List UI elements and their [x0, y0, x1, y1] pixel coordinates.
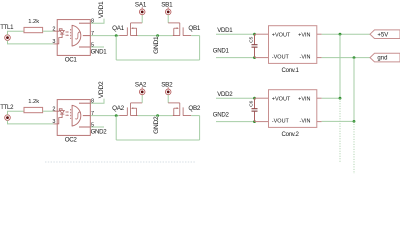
wire QA1 to QB1 — [138, 35, 173, 37]
supply flag +5V — [370, 30, 400, 39]
svg-text:2: 2 — [52, 107, 55, 113]
connector TTL1 — [5, 35, 11, 41]
junction Conv.2 -VIN node — [353, 120, 356, 123]
converter Conv.1 — [269, 26, 317, 64]
wire left drop ch1 — [115, 36, 117, 60]
optocoupler OC2 — [57, 100, 91, 136]
wire OC2.8 to VDD2 — [91, 99, 104, 104]
wire TTL1 to OC1 pin 3 — [8, 40, 54, 44]
junction GND1 node — [156, 34, 159, 37]
svg-text:-VIN: -VIN — [300, 54, 311, 60]
junction OC2.7 node — [115, 114, 118, 117]
svg-text:-VOUT: -VOUT — [272, 118, 290, 124]
svg-text:+VOUT: +VOUT — [272, 96, 291, 102]
svg-text:QB1: QB1 — [188, 25, 200, 32]
svg-text:-VIN: -VIN — [300, 118, 311, 124]
junction GND2 node — [156, 114, 159, 117]
pin stub Conv.2 -VOUT — [255, 121, 269, 123]
svg-text:2: 2 — [52, 27, 55, 33]
svg-text:+VIN: +VIN — [298, 32, 310, 38]
pin stub Conv.1 +VOUT — [255, 33, 269, 35]
svg-text:gnd: gnd — [377, 56, 387, 62]
svg-text:GND1: GND1 — [153, 36, 160, 54]
wire +5V drop to Conv.2 +VIN — [339, 34, 341, 98]
svg-text:1.2k: 1.2k — [28, 99, 39, 105]
wire R1 to OC1 pin 2 — [43, 30, 54, 32]
svg-text:SB2: SB2 — [161, 81, 173, 88]
svg-text:3: 3 — [52, 119, 55, 125]
wire GND1 to Conv.1 — [216, 57, 255, 59]
svg-text:GND2: GND2 — [153, 116, 160, 134]
wire Conv.2 -VIN — [322, 120, 354, 122]
wire QB2 gate right — [191, 115, 199, 117]
resistor R1 1.2k — [24, 27, 43, 32]
capacitor C6 — [252, 98, 258, 121]
svg-text:Conv.1: Conv.1 — [282, 67, 300, 74]
wire gnd dotted continuation — [353, 121, 355, 174]
pin stub Conv.1 -VOUT — [255, 57, 269, 59]
wire QA1 drain to SA1 — [141, 15, 143, 23]
wire GND2 to Conv.2 — [216, 121, 255, 123]
svg-text:SB1: SB1 — [161, 1, 173, 8]
wire bottom rail ch1 — [116, 59, 199, 61]
pin stub OC2.2 — [53, 110, 57, 112]
svg-text:VDD1: VDD1 — [98, 1, 105, 18]
wire QB1 gate right — [191, 35, 199, 37]
svg-text:Conv.2: Conv.2 — [282, 131, 300, 138]
svg-text:+VOUT: +VOUT — [272, 32, 291, 38]
transistor QB2 — [168, 103, 191, 116]
wire QA2 drain to SA2 — [141, 95, 143, 103]
svg-text:GND2: GND2 — [91, 128, 108, 135]
wire OC2.7 to QA2 — [91, 115, 119, 117]
wire OC1.5 GND1 — [91, 46, 104, 48]
transistor QB1 — [168, 23, 191, 36]
junction Conv.2 +VIN node — [339, 97, 342, 100]
wire OC1.7 to QA1 — [91, 35, 119, 37]
wire +5V dotted continuation — [339, 98, 341, 162]
wire bottom rail ch2 — [116, 139, 199, 141]
wire left drop ch2 — [115, 116, 117, 140]
svg-text:QA1: QA1 — [112, 25, 124, 32]
wire right drop ch2 — [199, 116, 201, 140]
svg-text:VDD1: VDD1 — [217, 27, 233, 34]
svg-text:TTL2: TTL2 — [0, 104, 14, 111]
resistor R2 1.2k — [24, 107, 43, 112]
wire Conv.2 +VIN — [322, 97, 340, 99]
junction OC1.7 node — [115, 34, 118, 37]
wire GND1 stub — [157, 36, 159, 42]
wire Conv.1 +VIN to +5V flag — [322, 33, 370, 35]
pin stub Conv.2 -VIN — [317, 121, 322, 123]
svg-text:+VIN: +VIN — [298, 96, 310, 102]
svg-text:TTL1: TTL1 — [0, 24, 14, 31]
junction gnd node — [353, 56, 356, 59]
wire right drop ch1 — [199, 36, 201, 60]
junction GND2 cap C6 — [253, 120, 256, 123]
svg-text:GND1: GND1 — [213, 48, 230, 55]
svg-text:SA1: SA1 — [135, 1, 147, 8]
pin stub Conv.1 -VIN — [317, 57, 322, 59]
pin stub Conv.1 +VIN — [317, 33, 322, 35]
wire TTL2 to R2 — [8, 111, 25, 115]
connector SB1 — [165, 7, 171, 14]
wire TTL1 to R1 — [8, 31, 25, 35]
svg-text:GND2: GND2 — [213, 112, 230, 119]
svg-text:3: 3 — [52, 39, 55, 45]
junction +5V node — [339, 33, 342, 36]
wire gnd drop to Conv.2 -VIN — [353, 58, 355, 122]
svg-text:OC1: OC1 — [65, 56, 78, 63]
svg-text:QA2: QA2 — [112, 105, 124, 112]
connector SA2 — [139, 87, 145, 95]
junction VDD2 cap C6 — [253, 97, 256, 100]
svg-text:OC2: OC2 — [65, 136, 78, 143]
supply flag gnd — [370, 53, 400, 62]
pin stub Conv.2 +VOUT — [255, 97, 269, 99]
svg-text:QB2: QB2 — [188, 105, 200, 112]
junction VDD1 cap C5 — [253, 33, 256, 36]
svg-text:VDD2: VDD2 — [217, 91, 233, 98]
pin stub Conv.2 +VIN — [317, 97, 322, 99]
wire R2 to OC2 pin 2 — [43, 110, 54, 112]
svg-text:1.2k: 1.2k — [28, 19, 39, 25]
junction GND1 cap C5 — [253, 56, 256, 59]
wire OC1.8 to VDD1 — [91, 19, 104, 24]
capacitor C5 — [252, 34, 258, 57]
pin stub OC1.3 — [53, 43, 57, 45]
connector SB2 — [165, 87, 171, 95]
pin stub OC1.2 — [53, 30, 57, 32]
svg-text:GND1: GND1 — [91, 48, 108, 55]
wire Conv.1 -VIN to gnd flag — [322, 57, 370, 59]
wire OC2.5 GND2 — [91, 126, 104, 128]
partition dashed line — [45, 161, 195, 163]
svg-text:+5V: +5V — [377, 32, 388, 38]
connector SA1 — [139, 7, 145, 14]
svg-text:C6: C6 — [249, 100, 255, 106]
connector TTL2 — [5, 115, 11, 121]
svg-text:C5: C5 — [249, 36, 255, 42]
wire GND2 stub — [157, 116, 159, 122]
svg-text:VDD2: VDD2 — [98, 81, 105, 98]
optocoupler OC1 — [57, 20, 91, 56]
wire QA2 to QB2 — [138, 115, 173, 117]
transistor QA1 — [119, 23, 142, 36]
converter Conv.2 — [269, 90, 317, 128]
wire TTL2 to OC2 pin 3 — [8, 120, 54, 124]
pin stub OC2.3 — [53, 123, 57, 125]
transistor QA2 — [119, 103, 142, 116]
svg-text:SA2: SA2 — [135, 81, 147, 88]
wire SB2 to QB2 drain — [167, 95, 169, 103]
wire VDD2 to Conv.2 — [216, 97, 255, 99]
wire VDD1 to Conv.1 — [216, 33, 255, 35]
wire SB1 to QB1 drain — [167, 15, 169, 23]
svg-text:-VOUT: -VOUT — [272, 54, 290, 60]
